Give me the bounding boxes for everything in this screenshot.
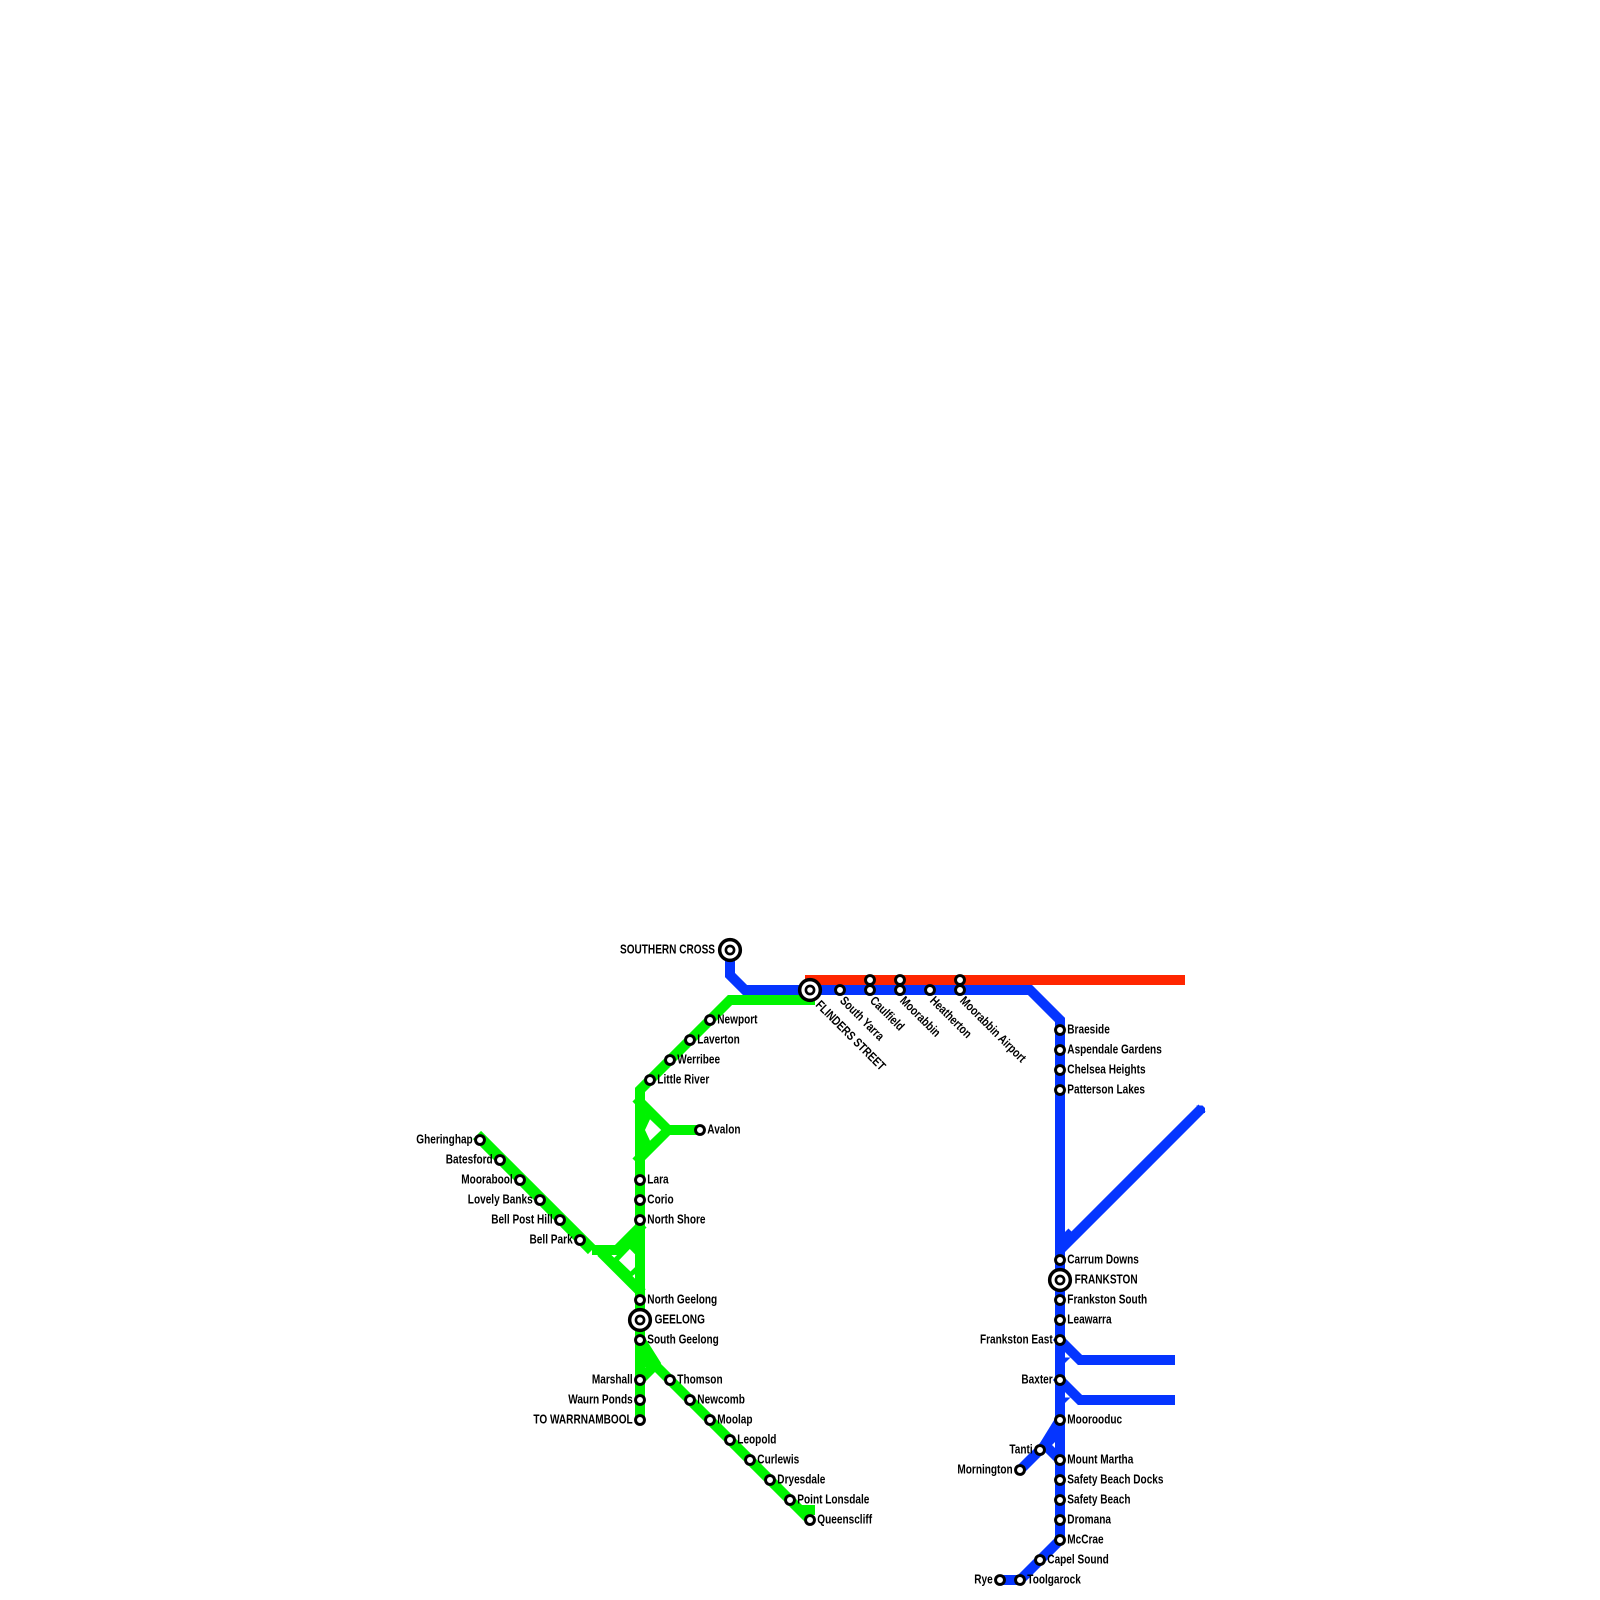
svg-text:Frankston South: Frankston South	[1067, 1293, 1147, 1307]
svg-text:Leawarra: Leawarra	[1067, 1313, 1112, 1327]
station dot Moorabbin red dot	[896, 976, 905, 985]
svg-text:GEELONG: GEELONG	[655, 1313, 705, 1327]
station dot Tanti	[1036, 1446, 1045, 1455]
green main line Flinders St to Warrnambool	[640, 1000, 815, 1421]
svg-text:Waurn Ponds: Waurn Ponds	[568, 1393, 633, 1407]
svg-text:Queenscliff: Queenscliff	[817, 1513, 872, 1527]
station dot Baxter	[1056, 1376, 1065, 1385]
svg-text:Mount Martha: Mount Martha	[1067, 1453, 1134, 1467]
svg-text:Corio: Corio	[647, 1193, 674, 1207]
green chord to Marshall	[640, 1363, 657, 1380]
svg-text:Aspendale Gardens: Aspendale Gardens	[1067, 1043, 1162, 1057]
svg-text:North Shore: North Shore	[647, 1213, 705, 1227]
svg-text:Mornington: Mornington	[957, 1463, 1012, 1477]
svg-text:Lovely Banks: Lovely Banks	[468, 1193, 533, 1207]
blue chord to Mount Martha	[1043, 1443, 1060, 1460]
station dot Moorabbin	[896, 986, 905, 995]
station dot Marshall	[636, 1376, 645, 1385]
svg-text:Werribee: Werribee	[677, 1053, 720, 1067]
green Gheringhap branch diagonal upper segment	[477, 1135, 592, 1250]
station dot Frankston South	[1056, 1296, 1065, 1305]
station dot Batesford	[496, 1156, 505, 1165]
station dot Moorabbin Airport	[956, 986, 965, 995]
svg-text:Moorooduc: Moorooduc	[1067, 1413, 1122, 1427]
svg-text:Laverton: Laverton	[697, 1033, 740, 1047]
svg-text:Lara: Lara	[647, 1173, 669, 1187]
svg-text:Tanti: Tanti	[1009, 1443, 1032, 1457]
station dot Chelsea Heights	[1056, 1066, 1065, 1075]
station dot Safety Beach	[1056, 1496, 1065, 1505]
green patch Bell Park junction fill	[612, 1242, 638, 1277]
station dot Leawarra	[1056, 1316, 1065, 1325]
blue Mornington branch diagonal	[1020, 1430, 1060, 1470]
blue Moorooduc junction connector	[1044, 1420, 1060, 1446]
blue wedge stub B junction	[1064, 1398, 1071, 1405]
green Queenscliff branch diagonal	[640, 1350, 810, 1520]
interchange marker SOUTHERN CROSS	[720, 940, 741, 961]
blue stub B branch from Baxter	[1060, 1380, 1170, 1400]
station dot Werribee	[666, 1056, 675, 1065]
svg-text:Bell Park: Bell Park	[530, 1233, 573, 1247]
station dot Bell Park	[576, 1236, 585, 1245]
station dot Mount Martha	[1056, 1456, 1065, 1465]
station dot Moorabool	[516, 1176, 525, 1185]
station dot Point Lonsdale	[786, 1496, 795, 1505]
green Avalon triangle upper leg	[636, 1098, 700, 1130]
station dot South Yarra	[836, 986, 845, 995]
station dot Moorooduc	[1056, 1416, 1065, 1425]
station dot Lara	[636, 1176, 645, 1185]
station dot Safety Beach Docks	[1056, 1476, 1065, 1485]
station dot Newport	[706, 1016, 715, 1025]
interchange marker FLINDERS STREET	[800, 980, 821, 1001]
green South Geelong junction connector	[640, 1339, 657, 1366]
green Avalon triangle lower leg	[636, 1130, 700, 1162]
white hole Avalon junction	[645, 1119, 661, 1140]
svg-text:Leopold: Leopold	[737, 1433, 776, 1447]
svg-text:Safety Beach Docks: Safety Beach Docks	[1067, 1473, 1163, 1487]
svg-text:South Geelong: South Geelong	[647, 1333, 719, 1347]
station dot Toolgarock	[1016, 1576, 1025, 1585]
green patch South Geelong junction sliver	[641, 1354, 652, 1369]
svg-text:Newcomb: Newcomb	[697, 1393, 745, 1407]
interchange marker GEELONG	[630, 1310, 651, 1331]
station dot Curlewis	[746, 1456, 755, 1465]
station dot Caulfield	[866, 986, 875, 995]
svg-text:Frankston East: Frankston East	[980, 1333, 1053, 1347]
station dot TO WARRNAMBOOL	[636, 1416, 645, 1425]
station dot Little River	[646, 1076, 655, 1085]
station dot Braeside	[1056, 1026, 1065, 1035]
station dot Laverton	[686, 1036, 695, 1045]
blue Carrum Downs junction connector	[1060, 1232, 1072, 1244]
green patch Avalon junction fill	[642, 1111, 663, 1149]
station dot Rye	[996, 1576, 1005, 1585]
interchange marker FRANKSTON	[1050, 1270, 1071, 1291]
station dot Queenscliff	[806, 1516, 815, 1525]
blue main line Southern Cross to Rye	[730, 950, 1060, 1580]
station dot Moorabbin Airport red dot	[956, 976, 965, 985]
svg-text:Carrum Downs: Carrum Downs	[1067, 1253, 1139, 1267]
station dot Moolap	[706, 1416, 715, 1425]
station dot Bell Post Hill	[556, 1216, 565, 1225]
svg-text:Dromana: Dromana	[1067, 1513, 1112, 1527]
station dot Lovely Banks	[536, 1196, 545, 1205]
svg-text:Rye: Rye	[974, 1573, 993, 1587]
svg-text:Moolap: Moolap	[717, 1413, 752, 1427]
white hole Bell Park junction	[619, 1249, 635, 1272]
svg-text:Safety Beach: Safety Beach	[1067, 1493, 1130, 1507]
svg-text:Curlewis: Curlewis	[757, 1453, 799, 1467]
svg-text:FRANKSTON: FRANKSTON	[1075, 1273, 1138, 1287]
svg-text:Thomson: Thomson	[677, 1373, 722, 1387]
station dot North Geelong	[636, 1296, 645, 1305]
station dot Gheringhap	[476, 1136, 485, 1145]
red express line	[810, 975, 1180, 985]
blue wedge stub A junction	[1064, 1358, 1071, 1365]
svg-text:Batesford: Batesford	[446, 1153, 493, 1167]
blue stub A branch from Frankston East	[1060, 1340, 1170, 1360]
svg-text:Chelsea Heights: Chelsea Heights	[1067, 1063, 1145, 1077]
svg-text:Marshall: Marshall	[592, 1373, 633, 1387]
station dot Avalon	[696, 1126, 705, 1135]
station dot Capel Sound	[1036, 1556, 1045, 1565]
station dot Leopold	[726, 1436, 735, 1445]
station dot Waurn Ponds	[636, 1396, 645, 1405]
svg-text:McCrae: McCrae	[1067, 1533, 1103, 1547]
station dot Caulfield red dot	[866, 976, 875, 985]
station dot Dromana	[1056, 1516, 1065, 1525]
svg-text:Toolgarock: Toolgarock	[1027, 1573, 1081, 1587]
station dot Aspendale Gardens	[1056, 1046, 1065, 1055]
station dot Carrum Downs	[1056, 1256, 1065, 1265]
svg-text:Bell Post Hill: Bell Post Hill	[491, 1213, 553, 1227]
station dot Newcomb	[686, 1396, 695, 1405]
svg-text:Avalon: Avalon	[707, 1123, 740, 1137]
svg-text:Gheringhap: Gheringhap	[416, 1133, 473, 1147]
station dot Heatherton	[926, 986, 935, 995]
svg-text:Point Lonsdale: Point Lonsdale	[797, 1493, 869, 1507]
svg-text:Moorabool: Moorabool	[461, 1173, 512, 1187]
svg-text:Newport: Newport	[717, 1013, 758, 1027]
station dot North Shore	[636, 1216, 645, 1225]
station dot South Geelong	[636, 1336, 645, 1345]
svg-text:North Geelong: North Geelong	[647, 1293, 717, 1307]
blue patch northeast diagonal tip	[1197, 1106, 1206, 1114]
station dot Corio	[636, 1196, 645, 1205]
svg-text:Capel Sound: Capel Sound	[1047, 1553, 1109, 1567]
svg-text:Braeside: Braeside	[1067, 1023, 1110, 1037]
station dot Thomson	[666, 1376, 675, 1385]
svg-text:TO WARRNAMBOOL: TO WARRNAMBOOL	[533, 1413, 633, 1427]
svg-text:SOUTHERN CROSS: SOUTHERN CROSS	[620, 943, 715, 957]
station dot Dryesdale	[766, 1476, 775, 1485]
station dot McCrae	[1056, 1536, 1065, 1545]
station dot Mornington	[1016, 1466, 1025, 1475]
green Gheringhap branch diagonal lower segment	[601, 1252, 642, 1293]
green patch Bell Park junction upper right	[628, 1238, 637, 1256]
green stub near Queenscliff	[805, 1505, 810, 1515]
svg-text:Little River: Little River	[657, 1073, 709, 1087]
green chord to North Shore	[592, 1224, 643, 1250]
blue northeast diagonal to Carrum Downs	[1060, 1108, 1202, 1250]
svg-text:Baxter: Baxter	[1021, 1373, 1052, 1387]
station dot Frankston East	[1056, 1336, 1065, 1345]
svg-text:Patterson Lakes: Patterson Lakes	[1067, 1083, 1145, 1097]
station dot Patterson Lakes	[1056, 1086, 1065, 1095]
svg-text:Dryesdale: Dryesdale	[777, 1473, 825, 1487]
